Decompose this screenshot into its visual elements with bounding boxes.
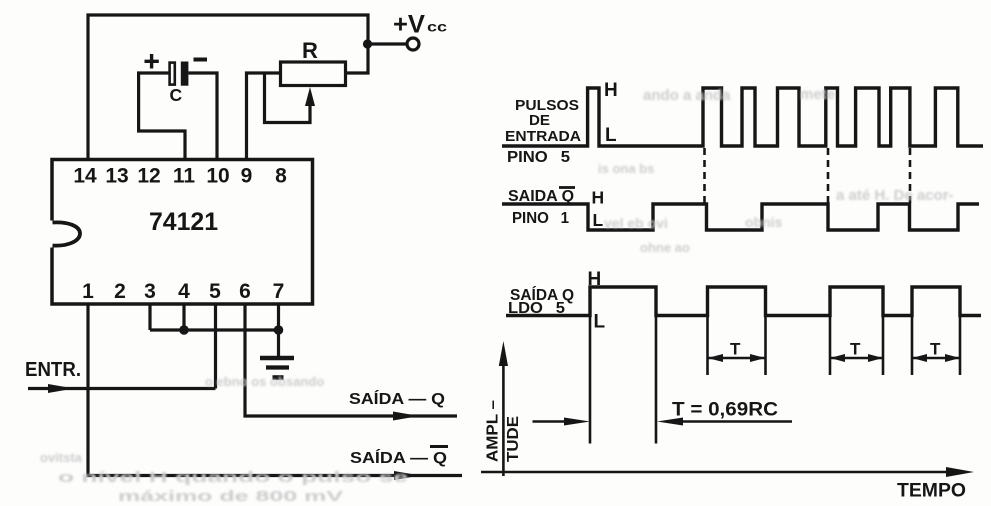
svg-text:2: 2 [114,280,126,303]
svg-text:o ebno os obsando: o ebno os obsando [205,374,324,389]
T measure arrow pulse4 [912,354,960,362]
svg-text:cc: cc [427,19,447,35]
capacitor C plus sign [145,54,159,69]
wire bus pins 3-4-7 [150,328,279,331]
svg-text:H: H [604,80,618,101]
IC 74121 body [52,160,313,305]
svg-text:obnis: obnis [745,214,783,230]
wire pin 6 down and right (saida Q) [245,304,457,416]
svg-text:PINO 5: PINO 5 [507,149,570,166]
svg-text:PINO 1: PINO 1 [512,210,569,227]
label SAIDA-Qbar [350,448,447,467]
wire C left to pin 11 [139,73,185,160]
svg-text:vel eb ovi: vel eb ovi [604,215,668,231]
pulse4 edge extensions [912,316,960,376]
potentiometer wiper arrow [305,87,315,106]
svg-text:LDO 5: LDO 5 [508,300,565,317]
svg-text:máximo de 800 mV: máximo de 800 mV [118,488,343,505]
T measure arrow pulse2 [708,354,766,362]
svg-text:5: 5 [209,280,221,303]
svg-text:SAIDA Q: SAIDA Q [508,188,574,205]
svg-text:6: 6 [239,280,251,303]
svg-text:10: 10 [206,165,229,188]
svg-text:9: 9 [241,165,253,188]
wire pin 7 to ground [277,304,280,356]
dashed trigger line 2 [827,148,830,203]
pin numbers bottom row [82,280,284,303]
svg-text:mete: mete [800,86,835,103]
wire C right to pin 10 [188,73,217,160]
svg-text:TEMPO: TEMPO [897,481,966,502]
arrowhead amplitude axis [499,341,508,366]
terminal +Vcc open circle [407,38,419,50]
wire pin 3 stub [148,304,151,330]
resistor R (potentiometer body) [281,62,346,86]
axis tempo horizontal [481,471,952,474]
pulse2 edge extensions [708,316,766,376]
label saida Q LDO 5 [508,269,606,333]
svg-text:8: 8 [275,165,287,188]
node pin7 junction [274,325,284,335]
svg-text:ando a anda: ando a anda [643,87,731,104]
label +Vcc [393,11,447,39]
svg-text:TUDE: TUDE [505,416,522,462]
svg-text:1: 1 [82,280,94,303]
ground [260,356,294,361]
dashed trigger line 1 [703,148,706,203]
label saida Q-bar pino 1 [508,188,604,231]
pulse1 edge extensions [590,316,656,444]
svg-text:ENTRADA: ENTRADA [505,128,581,145]
svg-text:+V: +V [393,11,425,39]
svg-text:T: T [930,340,941,359]
svg-text:T = 0,69RC: T = 0,69RC [672,400,778,421]
arrowhead ENTR [48,384,74,393]
arrowhead saida Q-bar [394,471,420,480]
svg-text:14: 14 [73,165,97,188]
faint bleed-through background text [40,86,954,505]
svg-text:L: L [594,312,606,333]
svg-text:H: H [592,188,605,208]
svg-text:13: 13 [105,165,128,188]
wire top rail pin14 to Vcc branch [88,15,368,160]
svg-text:AMPL –: AMPL – [485,400,502,462]
T=0,69RC measure left arrow [533,418,591,426]
svg-text:ohne ao: ohne ao [640,240,690,255]
svg-text:DE: DE [529,112,550,129]
svg-text:C: C [170,85,183,105]
svg-text:SAÍDA — Q: SAÍDA — Q [349,389,445,408]
svg-text:T: T [850,340,861,359]
svg-text:L: L [605,125,617,146]
wire pin 5 to ENTR line [214,304,217,389]
overline on saida Q label [559,186,575,189]
node pin4 junction [179,325,189,335]
svg-text:is ona bs: is ona bs [598,161,654,176]
wire ENTR input [28,387,216,390]
svg-text:L: L [593,210,604,230]
axis amplitude vertical [502,358,505,476]
capacitor C left plate [170,63,175,85]
svg-text:ovitsta: ovitsta [40,450,83,465]
pulse3 edge extensions [830,316,883,376]
svg-text:11: 11 [173,165,196,188]
svg-text:12: 12 [137,165,160,188]
T measure arrow pulse3 [830,354,883,362]
T=0,69RC measure right arrow [657,418,792,426]
dashed trigger line 3 [909,148,912,203]
svg-text:H: H [588,269,602,290]
label pulsos de entrada pino 5 [505,80,618,166]
svg-text:T: T [730,340,741,359]
waveform saida Q-bar pino 1 [502,204,979,230]
arrowhead saida Q [393,412,419,421]
capacitor C minus sign [194,58,208,62]
svg-text:3: 3 [144,280,156,303]
svg-text:4: 4 [178,280,190,303]
svg-text:o nível H quando o pulso se: o nível H quando o pulso se [58,469,408,486]
svg-text:SAÍDA — Q: SAÍDA — Q [350,448,447,467]
svg-text:ENTR.: ENTR. [25,359,81,381]
wire wiper branch [265,73,311,123]
wire pin 4 stub [182,304,185,330]
svg-text:7: 7 [273,280,285,303]
capacitor C right plate [181,62,189,86]
overline on Q [430,445,448,448]
node Vcc junction [363,39,372,48]
IC notch [49,221,81,248]
wire R left to pin 9 [247,73,281,160]
svg-text:74121: 74121 [149,208,218,236]
waveform saida Q LDO 5 [506,287,981,316]
arrowhead tempo axis [946,467,974,477]
waveform pulses de entrada pino 5 [502,88,983,146]
pin numbers top row [73,165,287,188]
svg-text:R: R [302,38,318,63]
wire pin 1 down and right (saida Q-bar) [88,304,462,476]
svg-text:a até H. De acor-: a até H. De acor- [836,187,954,204]
wire Vcc branch to terminal [368,42,406,45]
